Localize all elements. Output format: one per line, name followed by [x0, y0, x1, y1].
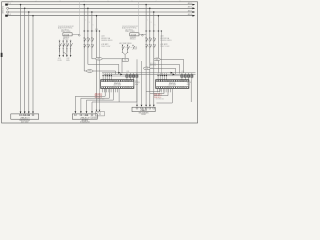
svg-text:-K11 3RT2: -K11 3RT2: [101, 44, 108, 46]
svg-text:L1 PE: L1 PE: [58, 60, 62, 62]
svg-text:-X11: -X11: [126, 71, 129, 73]
svg-text:400V: 400V: [187, 84, 190, 86]
svg-text:-T11: -T11: [187, 80, 190, 82]
svg-text:400V 11KW: 400V 11KW: [169, 85, 177, 87]
svg-text:-K11 3RT20: -K11 3RT20: [61, 29, 69, 31]
svg-text:L1 L2 L3 N PE: L1 L2 L3 N PE: [20, 115, 30, 117]
svg-text:469.2: 469.2: [188, 10, 192, 12]
svg-text:-X22: -X22: [66, 58, 69, 60]
svg-text:-W33 3X1.0: -W33 3X1.0: [154, 97, 162, 99]
svg-text:-B11 TEMP 3RS10: -B11 TEMP 3RS10: [119, 43, 132, 45]
svg-text:-K11 3RT2: -K11 3RT2: [160, 44, 167, 46]
svg-text:-S11: -S11: [134, 47, 137, 49]
svg-text:EINSPEISUNG: EINSPEISUNG: [20, 120, 31, 122]
svg-text:400V: 400V: [135, 84, 138, 86]
svg-text:3RW3026: 3RW3026: [169, 83, 176, 85]
svg-text:-X21: -X21: [58, 58, 61, 60]
svg-text:W12: W12: [88, 71, 91, 73]
svg-text:NOT: NOT: [134, 49, 137, 51]
svg-text:-K11 3RT20: -K11 3RT20: [125, 29, 133, 31]
svg-text:OLFLEX 100: OLFLEX 100: [96, 99, 104, 101]
svg-text:406 L3 2.5: 406 L3 2.5: [150, 65, 157, 67]
svg-text:1 2 3 4 PE: 1 2 3 4 PE: [81, 115, 88, 117]
svg-text:OLFLEX 100: OLFLEX 100: [156, 99, 164, 101]
svg-text:4X1.5: 4X1.5: [151, 68, 155, 70]
svg-text:SIEMENS SIRIUS: SIEMENS SIRIUS: [101, 40, 112, 42]
svg-text:-W31 4G1.5: -W31 4G1.5: [94, 93, 102, 95]
svg-text:400V 11KW: 400V 11KW: [114, 85, 122, 87]
svg-text:13 14 21 22 43 44 31 32: 13 14 21 22 43 44 31 32: [58, 26, 74, 28]
svg-text:W21: W21: [156, 59, 159, 61]
svg-text:-T11: -T11: [135, 80, 138, 82]
svg-text:-Q11: -Q11: [101, 36, 104, 38]
svg-text:400V 50Hz: 400V 50Hz: [3, 6, 5, 14]
svg-text:W22: W22: [145, 68, 148, 70]
svg-text:X5: X5: [124, 60, 126, 62]
svg-text:-X5: -X5: [99, 114, 101, 116]
svg-text:MELDUNGEN: MELDUNGEN: [139, 112, 149, 114]
svg-text:W11: W11: [98, 59, 101, 61]
svg-text:3RV2011: 3RV2011: [63, 39, 69, 41]
svg-text:469.3: 469.3: [188, 14, 192, 16]
svg-text:469.0: 469.0: [188, 3, 192, 5]
svg-text:400V 50HZ: 400V 50HZ: [21, 122, 29, 124]
svg-text:24VDC 5.5KW: 24VDC 5.5KW: [160, 46, 170, 48]
svg-text:13 14 21 22 43 44 31 32: 13 14 21 22 43 44 31 32: [122, 26, 138, 28]
svg-text:405 L2 2.5: 405 L2 2.5: [150, 63, 157, 65]
svg-text:230V 50HZ: 230V 50HZ: [90, 119, 97, 121]
svg-text:N PE: N PE: [66, 60, 69, 62]
svg-text:3RW3026: 3RW3026: [114, 83, 121, 85]
svg-text:24VDC 5.5KW: 24VDC 5.5KW: [101, 46, 111, 48]
svg-text:SIEMENS SIRIUS: SIEMENS SIRIUS: [160, 40, 171, 42]
svg-text:3RW30: 3RW30: [135, 82, 140, 84]
svg-text:L1.1: L1.1: [7, 3, 10, 5]
svg-text:N1.1: N1.1: [7, 14, 10, 16]
svg-text:STEUERUNG: STEUERUNG: [80, 122, 90, 124]
svg-text:11: 11: [127, 59, 129, 61]
svg-text:STEUERSP.: STEUERSP.: [90, 117, 98, 119]
svg-text:-X11: -X11: [181, 71, 184, 73]
svg-text:3RW30: 3RW30: [187, 82, 192, 84]
svg-text:3RV2011: 3RV2011: [130, 39, 136, 41]
svg-text:-Q11: -Q11: [160, 36, 163, 38]
svg-text:469.1: 469.1: [188, 7, 192, 9]
